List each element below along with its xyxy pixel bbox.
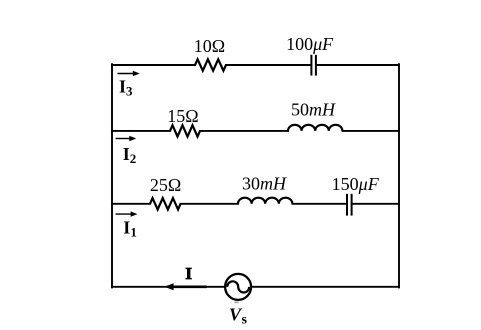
wire bottom branch left segment bbox=[112, 203, 150, 205]
svg-text:150μF: 150μF bbox=[332, 174, 380, 194]
current arrow I1 bbox=[116, 211, 138, 216]
wire middle branch right segment bbox=[343, 130, 400, 132]
inductor L 50mH middle branch bbox=[288, 125, 342, 131]
resistor R 10ohm top branch bbox=[195, 59, 226, 70]
wire left rail bbox=[111, 64, 113, 287]
current arrow I2 bbox=[116, 136, 137, 141]
svg-text:50mH: 50mH bbox=[291, 100, 336, 120]
capacitor C 150uF plate left bbox=[346, 194, 348, 216]
ac voltage source sine wave bbox=[227, 281, 249, 292]
wire bottom return right segment bbox=[251, 286, 399, 288]
current arrow I3 bbox=[117, 71, 139, 76]
svg-text:I2: I2 bbox=[123, 144, 137, 166]
current arrow I on bottom return wire bbox=[164, 283, 207, 290]
svg-text:10Ω: 10Ω bbox=[194, 36, 225, 56]
wire bottom branch right segment bbox=[353, 203, 399, 205]
wire top branch right segment bbox=[317, 64, 399, 66]
svg-text:Vs: Vs bbox=[229, 305, 248, 328]
ac voltage source Vs circle bbox=[225, 274, 251, 300]
wire right rail bbox=[398, 64, 400, 287]
resistor R 25ohm bottom branch bbox=[150, 198, 181, 209]
wire middle branch left segment bbox=[112, 130, 170, 132]
svg-text:15Ω: 15Ω bbox=[167, 106, 198, 126]
inductor L 30mH bottom branch bbox=[238, 198, 292, 204]
capacitor C 100uF plate right bbox=[315, 55, 317, 76]
svg-text:I1: I1 bbox=[123, 218, 137, 240]
wire bottom branch segment between inductor and capacitor bbox=[293, 203, 347, 205]
artifact tick below source bbox=[235, 302, 239, 304]
wire bottom return left segment bbox=[112, 286, 225, 288]
wire middle branch centre segment bbox=[200, 130, 288, 132]
svg-text:25Ω: 25Ω bbox=[150, 175, 181, 195]
wire top branch left segment bbox=[112, 64, 195, 66]
svg-text:I3: I3 bbox=[119, 77, 133, 99]
capacitor C 150uF plate right bbox=[351, 194, 353, 216]
svg-text:I: I bbox=[185, 264, 192, 283]
resistor R 15ohm middle branch bbox=[170, 125, 200, 136]
svg-text:30mH: 30mH bbox=[242, 174, 287, 194]
wire bottom branch segment between resistor and inductor bbox=[181, 203, 239, 205]
wire top branch middle segment bbox=[226, 64, 311, 66]
svg-text:100μF: 100μF bbox=[286, 34, 334, 54]
capacitor C 100uF plate left bbox=[310, 55, 312, 76]
